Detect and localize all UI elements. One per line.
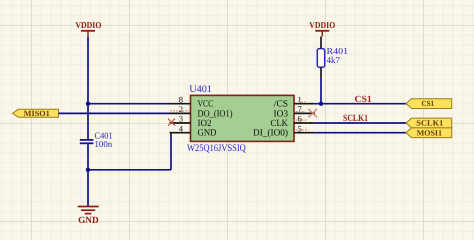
resistor R401 top pin	[320, 37, 322, 49]
wire VDDIO left rail down to junction A	[87, 37, 89, 104]
svg-text:CS1: CS1	[355, 95, 373, 105]
resistor R401 body	[317, 49, 324, 68]
svg-text:CLK: CLK	[271, 119, 289, 129]
wire C401 bottom to junction B	[87, 144, 89, 170]
svg-text:IO3: IO3	[274, 109, 289, 119]
wire junction B down to ground	[87, 170, 89, 206]
svg-text:8: 8	[179, 94, 183, 104]
power symbol VDDIO (left)	[75, 20, 101, 37]
wire junction A down to C401	[87, 104, 89, 139]
wire R401 to junction C	[320, 77, 322, 104]
svg-text:7: 7	[298, 104, 303, 114]
svg-text:CS1: CS1	[422, 99, 435, 108]
pin 1 /CS	[274, 94, 315, 109]
svg-text:MISO1: MISO1	[24, 109, 50, 118]
compile mask squiggle pin 1	[298, 101, 306, 103]
capacitor C401 plates	[80, 140, 94, 143]
IC U401 body	[191, 95, 295, 141]
compile mask squiggle pin 7	[296, 111, 305, 113]
pin 3 IO2	[170, 114, 212, 129]
pin 8 VCC	[170, 94, 214, 109]
svg-text:VCC: VCC	[198, 100, 214, 110]
svg-text:VDDIO: VDDIO	[75, 20, 101, 30]
svg-text:IO2: IO2	[198, 119, 212, 129]
svg-text:DI_(IO0): DI_(IO0)	[253, 129, 288, 139]
pin 6 CLK	[271, 114, 315, 129]
power symbol VDDIO (right)	[309, 20, 335, 37]
pin 7 IO3	[274, 104, 315, 119]
wire junction B right toward pin 4	[88, 169, 171, 171]
pin 2 DO_(IO1)	[170, 104, 233, 119]
no-connect X on pin 3	[168, 119, 175, 126]
wire up to U401 pin 4 (GND)	[170, 133, 172, 170]
svg-text:1: 1	[298, 94, 302, 104]
svg-text:GND: GND	[198, 129, 217, 139]
junction A (VCC tap)	[86, 102, 90, 106]
wire pin 1 to port CS1	[315, 103, 407, 105]
svg-text:DO_(IO1): DO_(IO1)	[198, 109, 233, 119]
compile mask squiggle pin 2	[170, 110, 192, 112]
svg-text:W25Q16JVSSIQ: W25Q16JVSSIQ	[187, 143, 246, 154]
pin 4 GND	[170, 123, 217, 138]
svg-text:6: 6	[298, 114, 303, 124]
svg-text:SCLK1: SCLK1	[343, 114, 368, 124]
wire pin 5 to port MOSI1	[315, 132, 407, 134]
junction B (GND tap)	[86, 168, 90, 172]
resistor R401 bottom pin	[320, 67, 322, 77]
svg-text:VDDIO: VDDIO	[309, 20, 335, 30]
port MISO1	[13, 109, 59, 118]
svg-text:U401: U401	[189, 84, 212, 95]
svg-text:GND: GND	[78, 216, 99, 226]
no-connect X on pin 7	[308, 109, 317, 117]
pin 5 DI_(IO0)	[253, 123, 315, 138]
wire MISO1 to U401 pin 2	[59, 112, 171, 114]
compile mask squiggle pin 6	[293, 119, 308, 121]
junction C (CS net)	[319, 102, 323, 106]
svg-text:4k7: 4k7	[327, 55, 341, 65]
port SCLK1	[406, 118, 452, 128]
compile mask squiggle pin 5	[296, 129, 309, 131]
svg-text:4: 4	[179, 123, 184, 133]
ground symbol GND	[78, 207, 99, 226]
svg-text:MOSI1: MOSI1	[417, 128, 442, 137]
wire pin 6 to port SCLK1	[315, 122, 407, 124]
wire junction A to U401 pin 8 (VCC)	[88, 103, 170, 105]
svg-text:100n: 100n	[95, 139, 113, 149]
svg-text:5: 5	[298, 123, 302, 133]
port MOSI1	[406, 128, 452, 138]
svg-text:2: 2	[179, 104, 183, 114]
svg-text:/CS: /CS	[274, 100, 288, 110]
port CS1	[406, 99, 452, 109]
svg-text:3: 3	[179, 114, 183, 124]
svg-text:SCLK1: SCLK1	[416, 119, 443, 128]
